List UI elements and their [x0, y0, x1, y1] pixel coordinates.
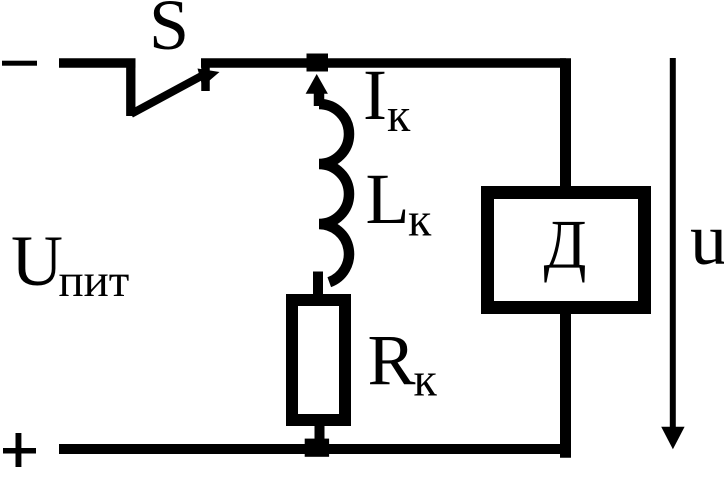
wire top-left segment	[59, 58, 136, 68]
wire stub coil to resistor	[313, 272, 323, 301]
voltage arrow u (arrowhead down)	[661, 427, 684, 449]
svg-text:Д: Д	[544, 207, 587, 284]
switch S blade arrowhead	[198, 69, 220, 87]
svg-text:S: S	[149, 0, 189, 65]
switch S left post (wire)	[126, 60, 135, 116]
wire right vertical top (corner to box)	[560, 58, 571, 192]
voltage arrow u (line)	[670, 58, 676, 430]
wire top segment to right corner	[201, 58, 566, 68]
resistor Rк (rectangle)	[292, 300, 345, 420]
wire right vertical bottom (box to bottom wire)	[560, 308, 571, 458]
node junction bottom (filled square)	[305, 439, 329, 457]
box Д (device)	[488, 193, 645, 308]
switch S blade	[131, 73, 207, 114]
wire stub resistor to bottom wire	[315, 420, 325, 449]
current arrow Iк (arrowhead up)	[306, 74, 328, 94]
inductor Lк coil	[319, 104, 349, 282]
node (−) supply terminal label	[2, 61, 37, 66]
node (+) supply terminal label	[3, 448, 36, 454]
svg-text:u: u	[690, 199, 724, 281]
switch S right contact stub	[201, 59, 210, 91]
node junction top (filled square)	[307, 54, 329, 72]
wire bottom segment	[59, 444, 566, 454]
